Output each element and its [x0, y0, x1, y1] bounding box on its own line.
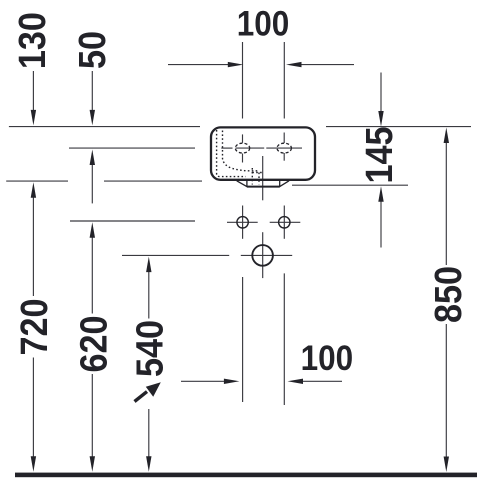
svg-text:620: 620: [72, 315, 115, 372]
svg-text:720: 720: [12, 298, 55, 355]
svg-text:100: 100: [301, 340, 354, 379]
svg-text:540: 540: [128, 320, 171, 377]
svg-text:100: 100: [237, 5, 290, 44]
svg-text:130: 130: [10, 12, 53, 69]
svg-text:850: 850: [426, 266, 469, 323]
svg-text:145: 145: [357, 126, 400, 183]
svg-text:50: 50: [70, 31, 113, 69]
